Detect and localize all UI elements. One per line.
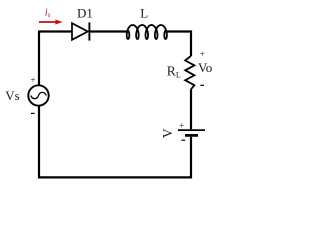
current arrow i_s — [39, 20, 63, 25]
source sine wave — [31, 92, 46, 98]
resistor R_L zigzag — [185, 56, 194, 89]
svg-text:+: + — [200, 49, 205, 59]
source Vs circle — [28, 85, 48, 105]
inductor L — [127, 25, 167, 39]
svg-text:+: + — [31, 75, 36, 85]
svg-text:is: is — [45, 8, 51, 19]
svg-text:L: L — [140, 5, 148, 20]
wire resistor-to-battery — [190, 89, 192, 129]
svg-text:+: + — [179, 121, 184, 131]
svg-text:Vo: Vo — [198, 60, 212, 75]
wire battery-to-bottom and bottom wire — [39, 106, 191, 177]
wire top-left segment — [39, 32, 72, 85]
wire inductor-to-corner and down to resistor — [164, 32, 191, 57]
svg-text:V: V — [160, 128, 175, 138]
wire diode-to-inductor — [89, 30, 129, 32]
diode D1 — [72, 22, 89, 40]
label Vo minus — [200, 84, 204, 86]
battery V bottom plate — [185, 134, 198, 137]
source minus — [31, 112, 35, 114]
battery minus — [182, 139, 186, 141]
svg-text:RL: RL — [167, 64, 181, 80]
svg-text:D1: D1 — [77, 5, 93, 20]
battery V top plate — [178, 129, 205, 131]
svg-text:Vs: Vs — [5, 88, 19, 103]
